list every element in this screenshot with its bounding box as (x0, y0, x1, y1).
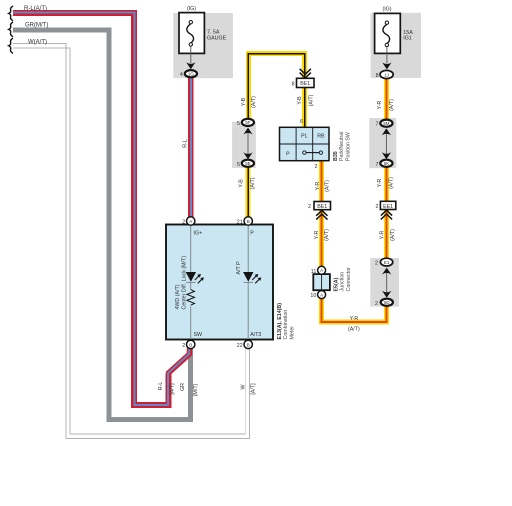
svg-text:Combination: Combination (283, 310, 289, 340)
svg-text:22: 22 (237, 343, 243, 349)
meter pin name A/T3 (250, 332, 261, 338)
svg-text:A/T3: A/T3 (250, 332, 261, 338)
wire name GR (M/T) bottom (180, 383, 199, 396)
arrow from fuse F1 to connector 1G (186, 46, 195, 69)
svg-text:2: 2 (375, 261, 378, 267)
svg-text:Park/Neutral: Park/Neutral (339, 132, 345, 161)
wire Y-R from connector 5K down to junction EE1 (384, 167, 389, 201)
svg-text:8: 8 (292, 82, 295, 88)
gray harness panel behind 15A IG1 fuse (371, 13, 421, 78)
fuse F2 label (IG) (382, 6, 391, 12)
label A/T P (236, 261, 242, 275)
gray harness panel connectors 5M/5K (369, 118, 396, 168)
wire Y-B from connector 5F up, across, down to junction BE1 pin 8 (248, 54, 304, 119)
wire name R-L on fuse drop (183, 139, 189, 148)
park/neutral position switch B35 (280, 127, 330, 160)
wire name Y-R (A/T) below 5K (377, 177, 395, 189)
B35 cell name P (286, 151, 290, 157)
wire name Y-R (A/T) below EE1 (379, 229, 396, 241)
svg-text:Y-R: Y-R (315, 182, 321, 191)
wire name Y-B (A/T) above meter pin 21 (238, 177, 256, 189)
connector oval 1G pin 4 (180, 70, 197, 78)
svg-text:(M/T): (M/T) (193, 383, 199, 396)
svg-text:7: 7 (376, 122, 379, 128)
svg-text:R-L: R-L (183, 139, 189, 148)
svg-text:Y-R: Y-R (314, 231, 320, 240)
gray harness panel connectors E1/6D (370, 258, 399, 307)
svg-text:6: 6 (300, 119, 303, 125)
svg-text:(IG): (IG) (382, 6, 391, 12)
svg-text:5F: 5F (245, 120, 250, 125)
svg-text:B35: B35 (333, 151, 339, 161)
svg-text:11: 11 (311, 269, 317, 275)
svg-text:B: B (247, 219, 250, 224)
svg-text:4: 4 (180, 72, 183, 78)
B35 pin 2 (315, 164, 318, 170)
indicator LED 4WD / Center Diff Lock (186, 272, 204, 283)
arrow from fuse F2 to connector 1J (382, 47, 391, 70)
svg-text:(IG): (IG) (187, 6, 196, 12)
arrows between connectors E1 and 6D (382, 268, 391, 298)
svg-text:A: A (189, 219, 192, 224)
svg-text:GAUGE: GAUGE (207, 35, 227, 41)
wire name Y-B (A/T) below BE1 pin 8 (297, 94, 315, 106)
connector brace GR wire (9, 22, 13, 37)
svg-text:5: 5 (237, 162, 240, 168)
svg-text:A: A (320, 293, 323, 298)
svg-text:P: P (250, 231, 254, 237)
svg-text:P: P (286, 151, 290, 157)
svg-text:2: 2 (182, 220, 185, 226)
arrows between connectors 5M and 5K (382, 128, 391, 159)
svg-text:1G: 1G (188, 71, 194, 76)
connector brace R-L wire (9, 6, 13, 21)
svg-text:7: 7 (376, 162, 379, 168)
wire R-L from fuse 1G connector down to meter pin 2 (IG+) (188, 78, 194, 218)
svg-text:Y-R: Y-R (377, 179, 383, 188)
junction connector BE1 pin 2 (308, 202, 330, 211)
svg-text:(A/T): (A/T) (324, 229, 330, 241)
svg-text:(A/T): (A/T) (324, 180, 330, 192)
svg-text:[A/T]: [A/T] (170, 383, 176, 395)
connector oval 1J pin 8 (376, 70, 394, 79)
svg-text:5M: 5M (383, 121, 389, 126)
label B35 Park/Neutral Position SW (333, 132, 351, 161)
internal conductor right branch (247, 226, 249, 338)
svg-text:Connector: Connector (346, 267, 352, 292)
svg-text:10: 10 (310, 293, 316, 299)
svg-text:2: 2 (308, 204, 311, 210)
svg-text:GR(M/T): GR(M/T) (25, 23, 48, 29)
svg-text:2: 2 (315, 164, 318, 170)
junction connector BE1 pin 8 (292, 78, 314, 87)
fuse F1 label (IG) (187, 6, 196, 12)
wire name R-L(A/T) top (24, 6, 47, 12)
label E5(A) Junction Connector (334, 267, 352, 292)
meter pin 2 (B) bottom (182, 340, 195, 349)
wire Y-R from junction BE1 pin 2 down to junction connector E5 pin 11 (319, 210, 324, 267)
arrows between connectors 5F and 5E (243, 128, 252, 160)
svg-text:Y-R: Y-R (377, 101, 383, 110)
wire Y-R from fuse 1J connector down to connector 5M (384, 79, 389, 120)
meter pin 21 (B) top (237, 217, 253, 226)
svg-text:[A/T]: [A/T] (250, 383, 256, 395)
junction connector EE1 pin 2 (375, 201, 395, 210)
svg-text:6D: 6D (384, 300, 390, 305)
wire Y-B from junction BE1 down to Park/Neutral SW pin 6 (302, 88, 307, 129)
E5 pin 10 (A) (310, 291, 325, 300)
svg-text:R-L(A/T): R-L(A/T) (24, 6, 47, 12)
wire Y-R from junction EE1 down to connector E1 (384, 209, 389, 258)
wire Y-R from junction connector E5 pin 10 down, right, up to connector 6D (322, 299, 387, 322)
E5 pin 11 (A) (311, 266, 326, 275)
meter pin 2 (A) top (182, 217, 195, 226)
connector oval 5F pin 5 (237, 119, 254, 127)
svg-text:2: 2 (375, 204, 378, 210)
wire name W [A/T] bottom (241, 383, 257, 395)
wire GR(M/T) from connector brace right, down, across bottom, up to meter pin 2 (13, 30, 191, 420)
svg-text:RB: RB (317, 134, 325, 140)
svg-text:5K: 5K (384, 161, 389, 166)
svg-text:W(A/T): W(A/T) (28, 39, 47, 45)
svg-text:E5(A): E5(A) (334, 277, 340, 291)
svg-text:Y-B: Y-B (241, 97, 247, 106)
svg-text:5: 5 (237, 121, 240, 127)
svg-text:R-L: R-L (158, 382, 164, 391)
svg-text:8: 8 (376, 73, 379, 79)
junction connector E5(A) box (313, 274, 330, 290)
wire name Y-R (A/T) horizontal segment (348, 316, 360, 333)
fuse F1 value label 7.5A GAUGE (207, 30, 227, 42)
fuse F1 7.5A GAUGE (179, 13, 204, 54)
wire name Y-R (A/T) below 1J (377, 99, 395, 111)
svg-text:E1: E1 (384, 260, 390, 265)
meter pin name P (250, 231, 254, 237)
svg-text:2: 2 (375, 301, 378, 307)
svg-text:BE1: BE1 (300, 81, 310, 87)
resistor in meter (187, 290, 195, 306)
svg-text:5E: 5E (245, 161, 250, 166)
wire R-L(A/T) from connector brace right, down, U-turn at bottom, jog up to meter pin 2 (13, 13, 190, 405)
wire name GR(M/T) top (25, 23, 48, 29)
svg-text:B: B (247, 342, 250, 347)
internal conductor left branch (190, 226, 192, 338)
connector oval 5E pin 5 (237, 160, 254, 168)
meter pin name SW (194, 332, 203, 338)
connector brace W wire (9, 38, 13, 53)
switch contact in B35 (303, 151, 323, 154)
svg-text:E13(A), E14(B): E13(A), E14(B) (277, 303, 283, 340)
svg-text:Y-R: Y-R (379, 231, 385, 240)
svg-text:(A/T): (A/T) (308, 94, 314, 106)
svg-text:(A/T): (A/T) (388, 177, 394, 189)
svg-text:Y-B: Y-B (297, 96, 303, 105)
svg-text:EE1: EE1 (383, 204, 393, 210)
combination meter box E13/E14 (166, 225, 273, 340)
connector oval 5K pin 7 (376, 160, 393, 168)
connector oval 5M pin 7 (376, 120, 393, 128)
svg-text:1J: 1J (384, 72, 389, 77)
wire W(A/T) from connector brace right, down, across bottom, up to meter pin 22 (13, 44, 250, 439)
svg-text:4WD (A/T): 4WD (A/T) (175, 284, 181, 309)
svg-text:Position SW: Position SW (345, 132, 351, 161)
svg-text:Meter: Meter (289, 326, 295, 340)
svg-text:A: A (320, 268, 323, 273)
fuse F2 value label 15A IG1 (403, 30, 413, 42)
wire name Y-B (A/T) upper left segment (241, 96, 257, 108)
svg-text:SW: SW (194, 332, 203, 338)
svg-text:(A/T): (A/T) (390, 229, 396, 241)
chevron arrows below junction EE1 pin 2 (381, 210, 392, 219)
wire Y-B from connector 5E down to meter pin 21 (P) (246, 167, 251, 218)
svg-text:Junction: Junction (340, 272, 346, 292)
B35 cell name RB (317, 134, 325, 140)
svg-text:Y-R: Y-R (350, 316, 359, 322)
svg-text:A/T P: A/T P (236, 261, 242, 275)
fuse F2 15A IG1 (375, 13, 401, 53)
svg-text:B: B (189, 342, 192, 347)
wire name Y-R (A/T) above BE1 pin 2 (315, 180, 330, 192)
svg-text:GR: GR (180, 383, 186, 391)
svg-text:(A/T): (A/T) (250, 177, 256, 189)
wire name R-L [A/T] bottom (158, 382, 176, 395)
chevron arrows into junction BE1 pin 8 (300, 69, 311, 78)
indicator LED A/T P (243, 272, 261, 283)
wire Y-R from Park/Neutral SW pin 2 down to junction BE1 pin 2 (319, 161, 324, 202)
svg-text:IG1: IG1 (403, 36, 412, 42)
svg-text:2: 2 (182, 343, 185, 349)
gray harness panel connectors 5F/5E (232, 122, 256, 168)
svg-text:(A/T): (A/T) (348, 326, 360, 332)
connector oval E1 pin 2 (375, 258, 393, 266)
connector oval 6D pin 2 (375, 299, 393, 307)
svg-text:21: 21 (237, 220, 243, 226)
svg-text:W: W (241, 385, 247, 390)
wire name Y-R (A/T) below BE1 pin 2 (314, 229, 330, 241)
meter pin name IG+ (194, 231, 203, 237)
meter pin 22 (B) bottom (237, 340, 253, 349)
B35 pin 6 (300, 119, 303, 125)
svg-text:(A/T): (A/T) (251, 96, 257, 108)
chevron arrows below junction BE1 pin 2 (316, 210, 327, 219)
svg-text:Y-B: Y-B (238, 179, 244, 188)
B35 cell name PL (301, 134, 308, 140)
svg-text:Center Diff. Lock (M/T): Center Diff. Lock (M/T) (181, 256, 187, 310)
svg-text:IG+: IG+ (194, 231, 203, 237)
svg-text:BE1: BE1 (317, 204, 327, 210)
label E13(A), E14(B) Combination Meter (277, 303, 295, 340)
gray harness panel behind 7.5A GAUGE fuse (173, 13, 233, 78)
svg-text:(A/T): (A/T) (389, 99, 395, 111)
label 4WD (A/T) Center Diff. Lock (M/T) (175, 256, 187, 310)
svg-text:PL: PL (301, 134, 308, 140)
wire name W(A/T) top (28, 39, 47, 45)
